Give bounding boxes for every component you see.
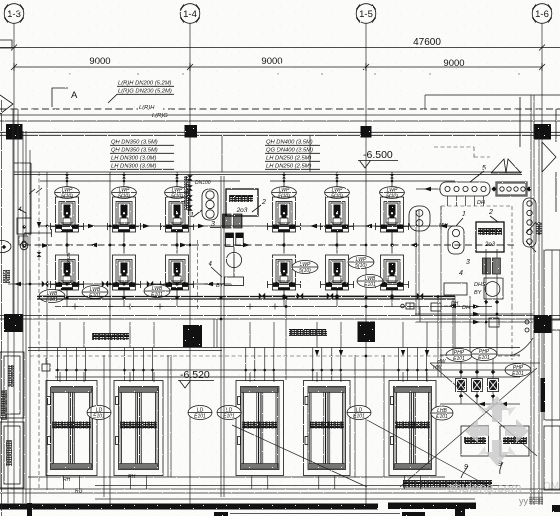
top pump stub valves bbox=[65, 175, 69, 179]
left riser labels bbox=[6, 440, 12, 466]
chiller CH3 bbox=[236, 381, 284, 476]
axis bubble 1-3 bbox=[4, 4, 24, 24]
right mid tags bbox=[446, 349, 472, 363]
double swing door bbox=[491, 159, 521, 173]
pump P9 bbox=[161, 255, 194, 290]
right room wall line bbox=[425, 94, 560, 96]
dashed branch x197 bbox=[197, 240, 199, 310]
machine room label left bbox=[92, 333, 129, 340]
pump P6 tag LWP bbox=[391, 172, 393, 187]
chiller risers bbox=[57, 348, 59, 382]
left border bbox=[1, 100, 3, 516]
right wall door bbox=[542, 142, 556, 172]
right riser diamonds bbox=[484, 300, 488, 304]
pump P2 tag LWP bbox=[123, 172, 125, 187]
shaft diagonal 1 bbox=[367, 420, 490, 487]
column 1-4 top bbox=[185, 125, 198, 138]
pump suction pipe bbox=[40, 225, 455, 227]
mid dashed main bbox=[24, 244, 515, 246]
right edge door arcs lower bbox=[526, 222, 536, 252]
long pipe x222 bbox=[220, 176, 222, 497]
pump P5 tag LWP bbox=[336, 172, 338, 187]
riser manifold center bbox=[202, 189, 218, 220]
column row2 left bbox=[4, 314, 23, 332]
flange junction dots row1 bbox=[58, 225, 62, 229]
pump P1 bbox=[51, 197, 84, 232]
pump base plate bbox=[225, 277, 244, 286]
pump P1 tag LWP bbox=[66, 172, 68, 187]
machine room label mid bbox=[289, 329, 327, 336]
pump P3 bbox=[161, 197, 194, 232]
column 1-5 top bbox=[361, 126, 372, 138]
chiller tags bbox=[87, 406, 111, 420]
pump P5 bbox=[321, 197, 354, 232]
right small fittings bbox=[406, 303, 414, 309]
bottom thick wall bbox=[0, 504, 378, 510]
pipe rack lines above chillers bbox=[28, 347, 520, 349]
column 1-6 top bbox=[534, 124, 552, 140]
leader to pipe labels bbox=[108, 94, 117, 103]
watermark arrows logo bbox=[465, 396, 529, 466]
shaft diagonal 3 bbox=[400, 368, 537, 487]
drain box left bbox=[42, 364, 50, 371]
chiller CH5 bbox=[389, 381, 436, 476]
chiller CH2 bbox=[114, 381, 163, 476]
left tag partial bbox=[0, 241, 11, 253]
risers through wall to header bbox=[59, 322, 61, 348]
chiller CH4 bbox=[304, 381, 351, 476]
pump discharge header left bbox=[24, 283, 232, 285]
right edge small text bbox=[536, 222, 542, 235]
softener cylinders bbox=[223, 214, 232, 228]
left edge vent symbol bbox=[0, 40, 13, 114]
partition stub x215 bbox=[213, 319, 215, 348]
makeup pump circle bbox=[226, 252, 241, 267]
collector manifold bbox=[440, 182, 490, 196]
chiller feed line with dots bbox=[55, 369, 520, 371]
chiller risers bbox=[312, 348, 314, 382]
pump header line bbox=[40, 180, 240, 182]
pump P7 bbox=[51, 255, 84, 290]
top wall centerline L(R)H dashed bbox=[0, 108, 560, 110]
top wall lines bbox=[0, 114, 560, 116]
riser stubs top wall bbox=[221, 135, 223, 172]
chiller CH1 bbox=[46, 381, 97, 476]
bottom small black fragments bbox=[214, 512, 228, 516]
grid line 1-4 bbox=[189, 23, 191, 505]
flange junction dots row2 bbox=[57, 282, 61, 286]
right mid pipe y363 bbox=[430, 362, 540, 364]
left wall extras bbox=[2, 245, 6, 249]
dashed duct right top bbox=[434, 146, 474, 148]
pump P12 bbox=[376, 255, 409, 290]
right wall black segment bbox=[541, 378, 546, 412]
pump P4 tag LWP bbox=[283, 172, 285, 187]
dimension line 9000 row bbox=[14, 66, 542, 68]
pump P3 tag LWP bbox=[176, 172, 178, 187]
right pipes down bbox=[454, 296, 456, 355]
section marker A bbox=[52, 88, 68, 107]
long pipe x286 bbox=[285, 296, 287, 380]
left wall rail bbox=[7, 331, 9, 503]
makeup pump right bbox=[484, 278, 503, 299]
chiller risers bbox=[124, 348, 126, 382]
grid line 1-3 bbox=[13, 23, 15, 505]
collector drop stubs bbox=[447, 196, 449, 206]
chiller zone verticals bbox=[103, 355, 105, 477]
axis bubble 1-5 bbox=[356, 4, 376, 24]
left rotated riser label bbox=[1, 390, 7, 420]
chiller risers bbox=[245, 348, 247, 382]
right wall vertical lines bbox=[530, 95, 532, 505]
pump room left border bbox=[29, 150, 31, 503]
chiller base line bbox=[28, 476, 445, 478]
arrow into collector bbox=[416, 188, 440, 190]
pump P6 bbox=[376, 197, 409, 232]
grid line 1-6 bbox=[541, 23, 543, 505]
column 1-3 top bbox=[6, 124, 23, 140]
faint reference dots bbox=[69, 73, 70, 74]
extra junction dots bbox=[109, 225, 112, 228]
main discharge header thick bbox=[37, 297, 455, 300]
distributor manifold bbox=[497, 183, 527, 196]
pump stubs below header bbox=[66, 299, 68, 307]
dashed room boundary bbox=[441, 205, 512, 207]
pump discharge header right bbox=[262, 295, 455, 297]
vent shaft label bbox=[3, 270, 10, 283]
chiller bottom stubs bbox=[63, 476, 65, 490]
bottom annotation text bbox=[403, 480, 492, 488]
grid line 1-5 bbox=[365, 23, 367, 505]
plate heat exchangers bbox=[456, 379, 467, 392]
chiller risers bbox=[398, 348, 400, 382]
pump P2 bbox=[108, 197, 141, 232]
pump P8 bbox=[108, 255, 141, 290]
bottom lower fragments bbox=[27, 503, 32, 516]
hx room boxes bbox=[461, 426, 489, 456]
axis bubble 1-6 bbox=[532, 4, 552, 24]
vertical dashed x512 lower bbox=[511, 306, 513, 360]
column row2 right bbox=[534, 315, 552, 333]
pump P10 bbox=[268, 255, 301, 290]
right pipes y314 y322 bbox=[415, 313, 533, 315]
column row2 1-5 bbox=[358, 322, 376, 343]
pump P4 bbox=[268, 197, 301, 232]
branch valves on grid 1-4 bbox=[187, 175, 193, 181]
axis bubble 1-4 bbox=[180, 4, 200, 24]
left riser label block bbox=[8, 365, 14, 387]
header line y307 bbox=[55, 306, 492, 308]
middle wall lines bbox=[0, 315, 560, 317]
shaft diagonal 4 bbox=[232, 425, 367, 487]
dosing pots bbox=[226, 233, 234, 238]
pump tags bottom row bbox=[39, 290, 65, 304]
pump column connectors bbox=[66, 245, 68, 254]
left rooms below bbox=[0, 352, 24, 418]
pump room top line bbox=[14, 171, 522, 173]
more junction dots on suction line bbox=[57, 225, 60, 228]
pump P11 bbox=[321, 255, 354, 290]
left wall verticals bbox=[12, 109, 14, 315]
shaft diagonal 2 bbox=[430, 363, 537, 456]
right edge rooms bbox=[544, 250, 560, 320]
riser down arrows bbox=[315, 350, 319, 356]
small manifold left of right room bbox=[409, 206, 430, 231]
right room feed pair bbox=[415, 210, 417, 315]
long pipe x438 bbox=[437, 296, 439, 377]
riser manifold right bbox=[523, 198, 536, 247]
left pipes arrows bbox=[8, 283, 24, 285]
dimension line 47600 bbox=[0, 47, 560, 49]
vertical cjk run bbox=[184, 176, 190, 210]
tank box RHX bbox=[226, 189, 258, 216]
column row2 1-4 bbox=[183, 325, 202, 347]
bottom wall line bbox=[0, 492, 560, 494]
hx feed lines bbox=[440, 354, 520, 356]
chiller inner rails bbox=[51, 392, 53, 464]
bottom annotation leaders bbox=[95, 485, 520, 487]
